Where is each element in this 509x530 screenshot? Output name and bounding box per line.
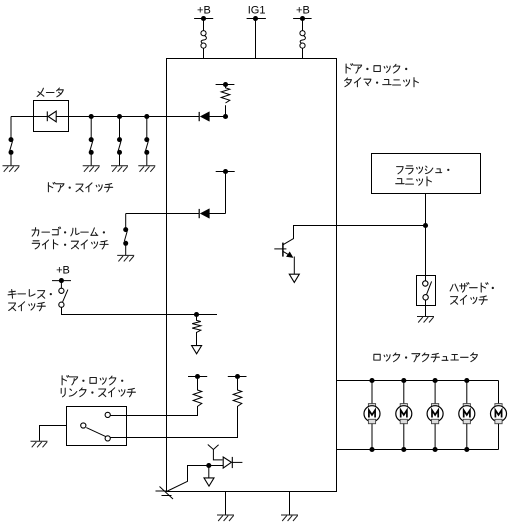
switch SW6 (keyless switch) [59, 281, 68, 308]
wire +B1 to fuse [203, 19, 205, 31]
switch SW1 (driver door switch) [9, 117, 14, 166]
ground G3 [111, 166, 128, 172]
wire corner diagonal to node D [167, 466, 224, 492]
switch SW4 (door switch) [144, 117, 149, 166]
junction top bus at M4 [464, 378, 469, 383]
ground G7 [417, 317, 434, 323]
diode D3 (filled, pointing left) [199, 209, 209, 219]
label door-lock-timer-unit line1 [346, 64, 407, 73]
wire R4 to link switch lower contact [110, 406, 237, 438]
diode D4 (open, pointing right) [223, 457, 232, 468]
junction bottom bus at M4 [464, 447, 469, 452]
arrow A1 (open down-arrow) [192, 346, 202, 354]
ground G8 [217, 515, 234, 521]
wire hazard switch to ground [425, 300, 427, 316]
motor M1 (lock actuator) [364, 381, 380, 450]
node IG1 (middle supply) [247, 4, 266, 21]
node B junction + stub [197, 314, 218, 316]
wire node D down [208, 466, 210, 478]
wire diode D2 to node A [209, 116, 225, 118]
label cargo room light switch line2 [32, 240, 108, 249]
label door switch [48, 182, 112, 192]
ground G2 [83, 166, 100, 172]
switch SW7 contacts [81, 412, 111, 441]
node D junction [206, 463, 211, 468]
junction node on door-switch line at x=91.2 [89, 114, 94, 119]
ground G4 [138, 166, 155, 172]
transistor Q1 (NPN) [274, 239, 293, 258]
label door lock link switch line2 [61, 388, 135, 397]
node +B (keyless) [52, 264, 71, 283]
resistor R1 [221, 84, 230, 116]
motor M5 (lock actuator) [491, 381, 507, 450]
wire fuse F2 to unit [302, 48, 304, 58]
label flash unit line2 [396, 177, 432, 186]
wire link switch common to ground [40, 426, 67, 441]
node C junction [423, 223, 428, 228]
flash unit box U2 [372, 154, 481, 194]
wire Q1 emitter down [293, 257, 295, 274]
wire fuse F1 to unit [203, 48, 205, 58]
door lock link switch SW7 box [67, 407, 127, 446]
junction bottom bus at M1 [369, 447, 374, 452]
wire stub down to cargo line [225, 172, 227, 214]
wire keyless to unit [62, 307, 197, 314]
switch SW5 (cargo room light switch) [123, 214, 128, 256]
ground G9 [281, 515, 298, 521]
svg-text:+B: +B [197, 4, 211, 16]
node A junction [223, 114, 228, 119]
wire +B2 to fuse [302, 19, 304, 31]
internal stub bar for R4 [228, 374, 247, 379]
junction top bus at M3 [433, 378, 438, 383]
wire R3 to link switch upper contact [110, 406, 197, 416]
label lock actuator [374, 353, 478, 362]
node +B (left supply) [194, 4, 213, 21]
ground G1 [3, 166, 20, 172]
internal stub bar for R3 [188, 374, 207, 379]
switch SW3 (door switch) [117, 117, 122, 166]
wire top actuator bus [337, 380, 499, 382]
junction top bus at M2 [401, 378, 406, 383]
motor M2 (lock actuator) [396, 381, 412, 450]
arrow A3 (open down-arrow) [204, 478, 214, 486]
label hazard switch line1 [450, 283, 494, 293]
arrow Y (up-fork symbol) [208, 445, 223, 460]
fusible link F1 [201, 31, 206, 49]
wire IG1 to unit [255, 19, 257, 59]
label door lock link switch line1 [62, 376, 123, 385]
wire diode D4 cathode stub [232, 461, 242, 463]
wire cargo line right seg [209, 213, 225, 215]
resistor R3 [193, 377, 202, 407]
wire node C to hazard switch [425, 226, 427, 282]
junction bottom bus at M2 [401, 447, 406, 452]
wire door-switch line (left part) [11, 116, 47, 118]
wire bottom actuator bus [337, 449, 499, 451]
motor M3 (lock actuator) [427, 381, 443, 450]
resistor R2 [192, 315, 201, 346]
svg-text:+B: +B [56, 264, 70, 276]
diode D2 (filled, pointing left) [199, 112, 209, 122]
meter box M1 [34, 101, 69, 132]
label flash unit line1 [397, 166, 450, 174]
svg-text:+B: +B [296, 4, 310, 16]
node +B (right supply) [293, 4, 312, 21]
ground G6 [31, 441, 48, 447]
label door-lock-timer-unit line2 [345, 78, 419, 87]
junction node on door-switch line at x=146.8 [144, 114, 149, 119]
wire unit bottom ground stub 2 [289, 492, 291, 515]
label keyless switch line2 [9, 302, 46, 311]
wire flash unit to node C [425, 194, 427, 226]
junction top bus at M1 [369, 378, 374, 383]
svg-text:IG1: IG1 [248, 4, 266, 16]
switch SW8 contacts [423, 281, 432, 300]
junction bottom bus at M3 [433, 447, 438, 452]
label meter [37, 88, 63, 97]
wire cargo line to switch [126, 213, 200, 215]
resistor R4 [233, 377, 242, 407]
door lock timer unit box U1 [167, 59, 337, 492]
wire Q1 collector to node C [294, 226, 426, 239]
internal +B stub bar (second) [216, 169, 235, 174]
fusible link F2 [300, 31, 305, 49]
ground G5 [117, 255, 134, 261]
junction node on door-switch line at x=119.5 [117, 114, 122, 119]
switch SW2 (door switch) [89, 117, 94, 166]
diode D1 (inside meter, pointing left, open) [47, 111, 56, 122]
label hazard switch line2 [451, 295, 488, 304]
wire door-switch line (meter to unit, into diode D2) [56, 116, 199, 118]
arrow A2 (open down-arrow) [289, 274, 299, 282]
internal +B stub bar (top) [216, 82, 235, 87]
wire unit bottom ground stub 1 [225, 492, 227, 515]
motor M4 (lock actuator) [459, 381, 475, 450]
label keyless switch line1 [8, 290, 52, 299]
chassis ground at unit corner [156, 487, 174, 500]
hazard switch SW8 box [417, 276, 436, 306]
label cargo room light switch line1 [32, 227, 105, 236]
